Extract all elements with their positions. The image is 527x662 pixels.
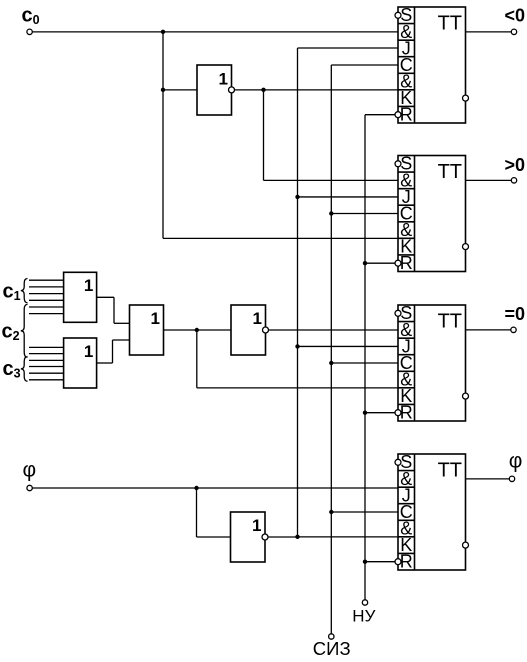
terminal >0 output (511, 178, 516, 183)
flip-flop U1 (<0 trigger) inverted-output bubble (463, 95, 469, 101)
flip-flop U3 (=0 trigger) R-input inversion bubble (395, 410, 401, 416)
wire c0 bus corner to U2 &K input (163, 237, 398, 239)
junction SIZ at U2 pin C (329, 211, 333, 215)
svg-text:φ: φ (23, 459, 37, 482)
junction J bus at U3 pin J (295, 344, 299, 348)
svg-text:<0: <0 (505, 5, 526, 25)
wire NU to U1 pin R (365, 114, 395, 116)
junction J bus at U4 &K wire (295, 535, 299, 539)
terminal NU (362, 600, 367, 605)
svg-text:1: 1 (84, 342, 93, 361)
junction inverter D1 output branch (261, 88, 265, 92)
inverter D5 box (231, 305, 266, 355)
wire inverter D1 output to U1 &K input (235, 89, 399, 91)
svg-text:1: 1 (151, 309, 160, 328)
junction J bus at U2 pin J (295, 195, 299, 199)
wire to U3 pin J (298, 345, 399, 347)
flip-flop U1 (<0 trigger) S-input inversion bubble (395, 12, 401, 18)
wire phi branch down to inverter D6 (196, 488, 198, 537)
svg-text:СИЗ: СИЗ (313, 638, 351, 659)
flip-flop U4 (phi trigger) S-input inversion bubble (395, 459, 401, 465)
svg-text:TT: TT (438, 460, 462, 482)
svg-text:>0: >0 (505, 155, 526, 175)
terminal c0 input (27, 29, 32, 34)
flip-flop U3 (=0 trigger) S-input inversion bubble (395, 310, 401, 316)
wire phi output from Q to terminal (466, 478, 510, 480)
wire OR gate D2 output to D4 input 1 (97, 296, 114, 298)
wire inverter D1 input (163, 89, 197, 91)
flip-flop U2 (>0 trigger) pin labels S &amp; J C &amp; K R and TT (400, 154, 462, 273)
wire to U2 pin J (298, 196, 399, 198)
svg-text:TT: TT (438, 311, 462, 333)
terminal phi input (27, 485, 32, 490)
flip-flop U1 (<0 trigger) R-input inversion bubble (395, 112, 401, 118)
junction SIZ at U3 pin C (329, 361, 333, 365)
wires OR gate D3 inputs (29, 347, 64, 379)
flip-flop U4 (phi trigger) body TT (398, 454, 466, 570)
svg-text:R: R (400, 253, 413, 273)
inverter D6 output bubble (262, 534, 268, 540)
brace c2 (21, 304, 28, 357)
junction D4 output branch (195, 328, 199, 332)
junction NU at U3 pin R (363, 411, 367, 415)
wire to U4 pin R (365, 561, 395, 563)
wire c0 horizontal to U1 pin & (32, 31, 398, 33)
wire inverter D5 output to U3 pin & (269, 329, 399, 331)
flip-flop U3 (=0 trigger) body TT (398, 305, 466, 421)
junction SIZ at U4 pin C (329, 510, 333, 514)
OR gate D4 box (130, 305, 164, 355)
flip-flop U2 (>0 trigger) body TT (398, 156, 466, 272)
flip-flop U4 (phi trigger) pin labels S &amp; J C &amp; K R and TT (400, 452, 462, 571)
OR gate D3 (c2/c3 group) box (64, 338, 97, 388)
inverter D6 box (231, 512, 266, 562)
inverter D1 (c0) box (197, 65, 232, 115)
wire J bus vertical (inverted phi) (297, 48, 299, 537)
terminal phi output (509, 476, 514, 481)
wire inverter D6 output to J bus (268, 536, 298, 538)
flip-flop U4 (phi trigger) inverted-output bubble (463, 542, 469, 548)
flip-flop U2 (>0 trigger) inverted-output bubble (463, 244, 469, 250)
svg-text:TT: TT (438, 13, 462, 35)
svg-text:1: 1 (252, 516, 261, 535)
flip-flop U4 (phi trigger) R-input inversion bubble (395, 559, 401, 565)
wire to U3 pin R (365, 412, 395, 414)
terminal <0 output (511, 29, 516, 34)
terminal =0 output (511, 327, 516, 332)
wire branch down to U3 &K input (196, 330, 198, 388)
wire c0 bus vertical (162, 32, 164, 239)
wire <0 output from Q to terminal (466, 31, 512, 33)
OR gate D2 (c1/c2 group) box (64, 272, 97, 322)
wire =0 output from Q to terminal (466, 329, 511, 331)
wire branch down to U2 pin & (263, 90, 265, 181)
svg-text:1: 1 (84, 276, 93, 295)
wire J bus to U1 pin J (298, 47, 399, 49)
brace c1 (21, 279, 28, 303)
flip-flop U2 (>0 trigger) R-input inversion bubble (395, 260, 401, 266)
wire into U2 pin & (264, 179, 399, 181)
wire to U4 pin C (331, 511, 398, 513)
wire to U2 pin C (331, 213, 398, 215)
svg-text:φ: φ (509, 450, 523, 473)
junction phi branch (194, 486, 198, 490)
svg-text:R: R (400, 403, 413, 423)
wire >0 output from Q to terminal (466, 179, 512, 181)
flip-flop U3 (=0 trigger) inverted-output bubble (463, 393, 469, 399)
wire SIZ bus vertical (330, 65, 332, 634)
flip-flop U2 (>0 trigger) S-input inversion bubble (395, 161, 401, 167)
svg-text:TT: TT (438, 161, 462, 183)
junction on c0 wire at bus (161, 30, 165, 34)
flip-flop U1 (<0 trigger) pin labels S &amp; J C &amp; K R and TT (400, 5, 462, 124)
wire OR gate D4 output to inverter D5 (164, 329, 232, 331)
terminal SIZ (329, 634, 334, 639)
junction NU at U2 pin R (363, 261, 367, 265)
svg-text:1: 1 (219, 70, 228, 89)
svg-text:1: 1 (253, 309, 262, 328)
flip-flop U1 (<0 trigger) body TT (398, 7, 466, 123)
wire SIZ to U1 pin C (331, 64, 398, 66)
wire J bus to U4 &K input (298, 536, 399, 538)
junction NU at U4 pin R (363, 560, 367, 564)
wire to U3 pin C (331, 362, 398, 364)
svg-text:=0: =0 (505, 304, 526, 324)
inverter D1 output bubble (229, 87, 235, 93)
svg-text:R: R (400, 105, 413, 125)
flip-flop U3 (=0 trigger) pin labels S &amp; J C &amp; K R and TT (400, 303, 462, 422)
wires OR gate D2 inputs (29, 280, 64, 313)
wire OR gate D3 output to D4 input 2 (97, 362, 113, 364)
inverter D5 output bubble (263, 327, 269, 333)
wire to U2 pin R (365, 262, 395, 264)
junction c0 bus to inverter D1 input (161, 88, 165, 92)
wire phi horizontal to U4 pin J (32, 487, 398, 489)
svg-text:НУ: НУ (352, 607, 375, 626)
wire NU bus vertical (364, 115, 366, 600)
brace c3 (21, 357, 28, 382)
svg-text:R: R (400, 552, 413, 572)
